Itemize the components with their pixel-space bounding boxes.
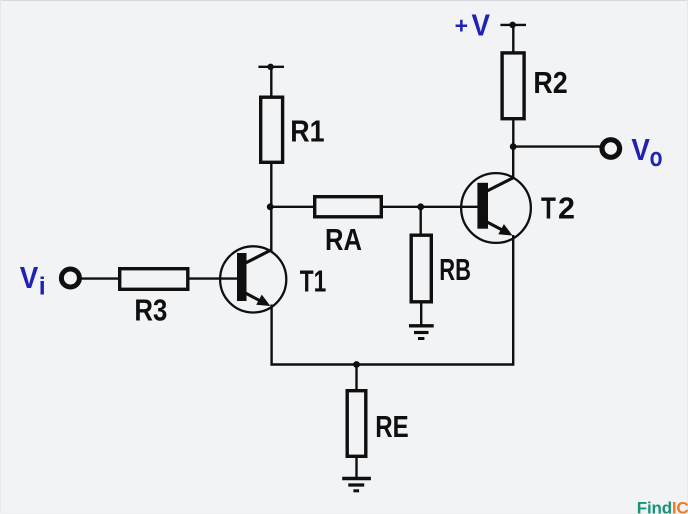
- svg-text:o: o: [650, 143, 663, 173]
- svg-text:T1: T1: [300, 264, 327, 298]
- svg-text:V: V: [472, 9, 491, 42]
- svg-text:RE: RE: [375, 409, 408, 443]
- svg-text:V: V: [631, 134, 650, 167]
- svg-text:V: V: [20, 262, 39, 295]
- svg-text:FindIC: FindIC: [637, 499, 688, 514]
- svg-text:i: i: [39, 273, 46, 301]
- svg-text:T: T: [541, 191, 556, 225]
- svg-text:+: +: [455, 12, 468, 38]
- svg-text:2: 2: [558, 192, 575, 226]
- svg-text:R2: R2: [533, 67, 567, 101]
- svg-text:RB: RB: [439, 253, 471, 287]
- svg-text:RA: RA: [325, 223, 362, 257]
- svg-text:R1: R1: [290, 115, 324, 149]
- svg-text:R3: R3: [134, 292, 167, 327]
